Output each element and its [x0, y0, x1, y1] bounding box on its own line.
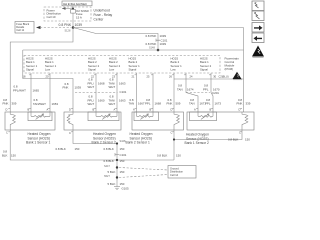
- label 0.8 PPL 1673 s4 below: [205, 98, 221, 106]
- svg-text:1665: 1665: [33, 88, 40, 92]
- svg-text:5 BLK: 5 BLK: [108, 182, 116, 186]
- label 0.8 PNK 1039 heater s2: [63, 82, 82, 90]
- svg-text:S148: S148: [149, 47, 155, 50]
- banner Hot In Run And Start: [62, 1, 92, 6]
- svg-text:TAN: TAN: [177, 87, 183, 91]
- label 0.8 BLK 150 s1: [2, 150, 16, 158]
- label 0.8 PPL/WHT 1665 wire s1 signal: [13, 85, 39, 93]
- wire main ground drop: [116, 144, 118, 187]
- label fuse name: [76, 9, 89, 19]
- box Ground Distribution Cell 14: [168, 166, 196, 179]
- svg-text:150: 150: [245, 138, 250, 142]
- svg-text:PNK: PNK: [237, 102, 243, 106]
- label PCM col5: [129, 56, 141, 71]
- svg-text:C101: C101: [120, 90, 127, 94]
- label 5 BLK 150 lower: [108, 182, 125, 186]
- icon button next: [252, 23, 264, 33]
- label 0.8 PNK 309 heater s1: [3, 98, 17, 106]
- pin letters sensor2: [69, 108, 116, 112]
- icon button zoom2: [252, 11, 264, 21]
- svg-text:PPL/WHT: PPL/WHT: [13, 88, 26, 92]
- svg-text:0.8 PNK: 0.8 PNK: [59, 23, 72, 27]
- icon button zoom1: [252, 1, 264, 11]
- svg-text:WHT: WHT: [88, 85, 95, 89]
- svg-text:C: C: [171, 131, 173, 135]
- svg-text:1663: 1663: [119, 81, 126, 85]
- svg-text:PNK: PNK: [3, 102, 9, 106]
- svg-text:0.8 BLK: 0.8 BLK: [56, 147, 66, 151]
- svg-text:150: 150: [75, 147, 80, 151]
- connector pin ticks: [8, 75, 242, 132]
- label 0.8 BLK 150 s2: [56, 147, 80, 151]
- connector C101 inline sensors: [75, 90, 127, 94]
- label PCM col3: [88, 56, 100, 71]
- underhood fuse block box: [44, 7, 91, 21]
- svg-text:0.8 BLK: 0.8 BLK: [104, 159, 114, 163]
- svg-text:1673: 1673: [215, 102, 222, 106]
- svg-text:1660: 1660: [98, 98, 105, 102]
- svg-text:150: 150: [120, 170, 125, 174]
- label 0.8 BLK 150 below S448: [104, 147, 125, 151]
- svg-text:Fuse - Relay: Fuse - Relay: [94, 13, 113, 17]
- wire PNK heater rail: [23, 49, 244, 51]
- svg-text:S448: S448: [120, 140, 126, 143]
- wire main PNK horizontal rail top: [73, 27, 244, 29]
- label 0.8 PPL 1660 below C101: [88, 95, 105, 106]
- svg-text:D: D: [6, 108, 8, 112]
- label 0.8 PNK 339 heater s4: [237, 98, 251, 106]
- svg-text:WHT: WHT: [109, 85, 116, 89]
- pin 18: [23, 73, 32, 112]
- svg-text:1674: 1674: [187, 87, 194, 91]
- svg-text:C: C: [6, 131, 8, 135]
- svg-text:S447: S447: [104, 165, 110, 168]
- connector C101 ground: [115, 153, 127, 157]
- label 0.8 BLK 150 s4: [228, 138, 250, 142]
- svg-text:1039: 1039: [160, 42, 167, 46]
- svg-text:150: 150: [176, 154, 181, 158]
- pin C sensor1: [6, 130, 117, 160]
- reference dashes to ground distribution: [119, 168, 168, 178]
- pin 21: [132, 73, 137, 112]
- label Power Distribution Cell 10: [47, 8, 62, 18]
- sensor3 HO2S B2S2 box: [132, 112, 184, 130]
- svg-text:S527: S527: [104, 175, 110, 178]
- svg-text:1667: 1667: [138, 102, 145, 106]
- node s2 junction S448: [116, 140, 126, 144]
- PCM dashed box: [24, 56, 220, 74]
- label 0.8 TAN 1663 below C101: [109, 95, 126, 106]
- label sensor1: [26, 132, 51, 144]
- label Powertrain Control Module: [225, 57, 240, 72]
- label 0.8 PPL 1668 s3 low: [145, 98, 161, 106]
- pin C sensor3: [171, 130, 175, 160]
- label 0.8 TAN 1663 above C101 s2 low: [109, 78, 126, 90]
- pin 24: [169, 73, 174, 112]
- node S148 splice: [149, 47, 159, 52]
- svg-text:Signal: Signal: [88, 68, 96, 72]
- pin letters sensor3: [133, 108, 173, 112]
- label 0.8 PNK 1039: [59, 23, 83, 27]
- label 0.8 PNK 509 heater s3: [167, 98, 181, 106]
- svg-text:Underhood: Underhood: [94, 9, 110, 13]
- svg-text:Cell 10: Cell 10: [47, 15, 56, 19]
- svg-text:D: D: [69, 108, 71, 112]
- svg-text:150: 150: [120, 147, 125, 151]
- label 0.8 TAN/WHT 1653 wire s1 low: [33, 98, 58, 106]
- label PCM col6: [171, 56, 183, 71]
- ESD triangle PCM: [233, 72, 243, 80]
- wire fuse top: [72, 6, 74, 10]
- label Underhood Fuse-Relay Center: [94, 9, 113, 22]
- connector C101 inline on PNK: [156, 39, 168, 43]
- svg-text:Signal: Signal: [200, 68, 208, 72]
- wire diagonal from splice to C101 drop: [73, 28, 158, 51]
- svg-text:PNK: PNK: [63, 86, 69, 90]
- svg-text:509: 509: [176, 102, 181, 106]
- label sensor2: [92, 132, 117, 144]
- svg-text:TAN/WHT: TAN/WHT: [33, 102, 46, 106]
- label 0.8 PNK 1039 below C101: [146, 42, 167, 46]
- svg-text:Bank 2 Sensor 1: Bank 2 Sensor 1: [126, 141, 151, 145]
- label 0.8 TAN 1674 s4 above: [177, 84, 194, 92]
- label 0.8 PPL 1668 above C101 s2 signal: [88, 78, 105, 90]
- svg-text:Signal: Signal: [129, 68, 137, 72]
- pin C sensor4: [173, 130, 242, 141]
- wire PNK from fuse to splice: [72, 21, 74, 28]
- node S128 splice dot: [65, 26, 75, 32]
- svg-text:1668: 1668: [155, 102, 162, 106]
- svg-text:1653: 1653: [52, 102, 59, 106]
- svg-text:150: 150: [120, 182, 125, 186]
- svg-text:Hot In Run And Start: Hot In Run And Start: [63, 3, 87, 6]
- svg-text:TAN: TAN: [129, 102, 135, 106]
- label 0.8 PNK 1039 above C101: [146, 34, 167, 38]
- pin 30: [211, 73, 217, 112]
- label PCM col1: [26, 56, 38, 71]
- svg-text:339: 339: [246, 102, 251, 106]
- svg-text:TAN: TAN: [189, 102, 195, 106]
- pin 22: [91, 73, 96, 112]
- fuse O2 SNSR 15A: [71, 10, 76, 22]
- wire ground rail right: [117, 159, 174, 161]
- label PCM col7: [200, 56, 212, 71]
- svg-text:0.8 PNK: 0.8 PNK: [146, 34, 157, 38]
- svg-text:Bank 1 Sensor 2: Bank 1 Sensor 2: [185, 141, 210, 145]
- pin 20: [46, 73, 51, 112]
- label sensor3: [126, 132, 153, 144]
- sensor4 HO2S B1S2 box: [187, 112, 254, 130]
- box Fuse Block Details Cell 11: [15, 22, 34, 34]
- reference arrow to fuse block details: [36, 26, 71, 29]
- svg-text:0.8 PNK: 0.8 PNK: [146, 42, 157, 46]
- pin 25: [147, 73, 154, 112]
- sensor1 HO2S B1S1 box: [5, 112, 55, 130]
- svg-text:A: A: [194, 108, 196, 112]
- wire heater feed sensor2: [23, 50, 73, 112]
- pin 24: [186, 73, 198, 112]
- svg-text:S128: S128: [65, 30, 71, 33]
- svg-text:0.8 BLK: 0.8 BLK: [157, 154, 167, 158]
- label PCM col4: [109, 56, 121, 71]
- pin letters sensor4: [194, 108, 241, 112]
- label 0.8 TAN 1667 s3 signal: [129, 98, 145, 106]
- svg-text:1039: 1039: [75, 86, 82, 90]
- svg-text:Bank 1 Sensor 1: Bank 1 Sensor 1: [26, 141, 51, 145]
- svg-text:Cell 14: Cell 14: [170, 173, 179, 177]
- svg-text:WHT: WHT: [109, 102, 116, 106]
- svg-text:C101: C101: [120, 153, 127, 157]
- fuse tap arrow: [62, 7, 74, 10]
- ground G105: [114, 187, 129, 191]
- pin 23: [112, 73, 117, 112]
- svg-text:1039: 1039: [75, 23, 83, 27]
- node rail junction: [116, 159, 118, 161]
- node S447 splice: [104, 165, 118, 169]
- node S128 splice ground: [104, 175, 118, 179]
- svg-text:150: 150: [120, 159, 125, 163]
- pin letters sensor1: [6, 108, 49, 112]
- label 0.8 BLK 150 ground: [104, 159, 125, 163]
- svg-text:309: 309: [12, 102, 17, 106]
- svg-text:BLK: BLK: [2, 153, 8, 157]
- icon ESD triangle: [252, 46, 264, 58]
- wire heater feed sensor3 branch: [174, 78, 244, 80]
- label PCM col2: [45, 56, 57, 71]
- svg-text:1668: 1668: [98, 81, 105, 85]
- pin C sensor2: [69, 130, 117, 144]
- svg-text:Signal: Signal: [26, 68, 34, 72]
- sensor2 HO2S B2S1 box: [64, 112, 121, 130]
- connector C201 inline s4: [186, 91, 219, 95]
- svg-text:0.8 BLK: 0.8 BLK: [104, 147, 114, 151]
- label 5 BLK 150: [108, 170, 125, 174]
- label 0.8 BLK 150 s3: [157, 154, 181, 158]
- svg-text:C201: C201: [212, 91, 219, 95]
- svg-text:150: 150: [11, 153, 16, 157]
- svg-text:1039: 1039: [160, 34, 167, 38]
- svg-text:PPL: PPL: [145, 102, 151, 106]
- svg-text:PNK: PNK: [167, 102, 173, 106]
- label sensor4: [185, 133, 210, 145]
- svg-text:C2(BLU): C2(BLU): [219, 75, 229, 79]
- svg-text:G105: G105: [122, 187, 129, 191]
- svg-text:PPL: PPL: [203, 87, 209, 91]
- wire heater feed sensor1: [10, 28, 73, 113]
- label 0.8 TAN 1671 s4 below: [189, 98, 206, 106]
- svg-text:(PCM): (PCM): [225, 67, 234, 71]
- svg-text:15 A: 15 A: [76, 15, 82, 19]
- wire PNK right vertical to sensor4 heater: [243, 28, 245, 113]
- svg-text:WHT: WHT: [88, 102, 95, 106]
- svg-text:PPL: PPL: [205, 102, 211, 106]
- label 0.8 PPL 1670 s4 above: [203, 84, 220, 92]
- svg-text:C: C: [239, 131, 241, 135]
- svg-text:0.8 BLK: 0.8 BLK: [228, 138, 238, 142]
- svg-text:Cell 11: Cell 11: [16, 28, 24, 32]
- svg-text:Bank 2 Sensor 2: Bank 2 Sensor 2: [92, 141, 117, 145]
- svg-text:C: C: [69, 131, 71, 135]
- svg-text:Center: Center: [94, 18, 105, 22]
- svg-text:1663: 1663: [119, 98, 126, 102]
- icon button prev: [252, 33, 264, 43]
- svg-text:5 BLK: 5 BLK: [108, 170, 116, 174]
